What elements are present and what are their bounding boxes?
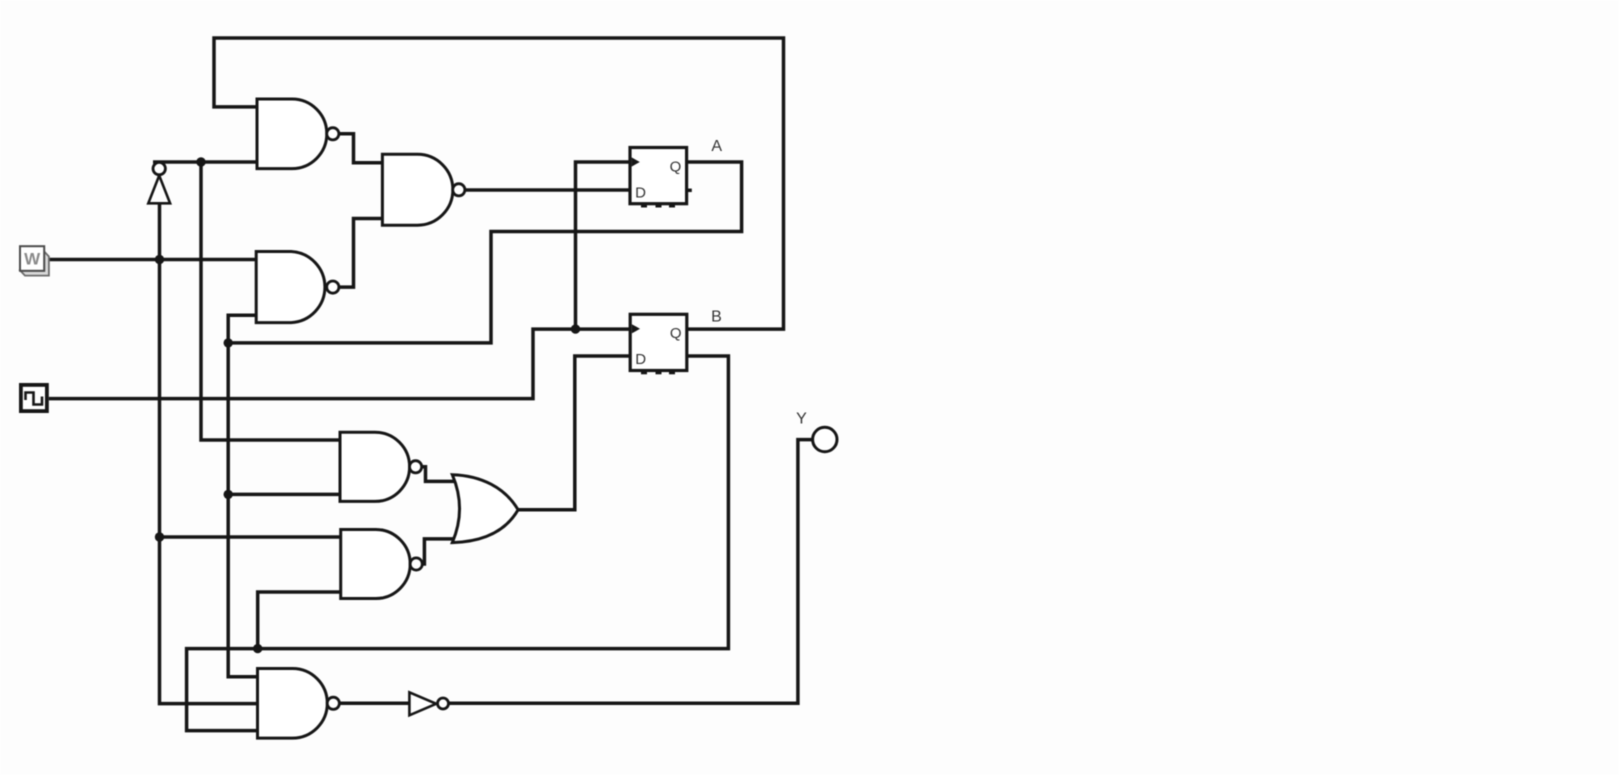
svg-text:W: W [24,250,41,269]
svg-text:B: B [711,308,722,325]
svg-text:A: A [711,138,722,155]
svg-text:Y: Y [796,410,807,427]
svg-text:Q: Q [670,158,682,175]
svg-text:D: D [635,184,646,201]
svg-text:D: D [635,351,646,368]
svg-text:Q: Q [670,325,682,342]
